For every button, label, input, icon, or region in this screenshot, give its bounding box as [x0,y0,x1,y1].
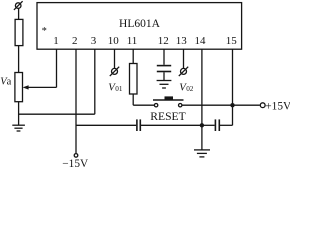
label Vo2 [179,81,194,93]
pushbutton RESET: left contact circle [154,104,157,107]
label Vo1 [108,81,123,93]
terminal -15V circle [74,154,78,158]
wire pin 14 vertical [201,49,203,125]
wire pin 2 vertical to -15V [75,49,77,153]
wire R2 bottom [132,94,134,105]
svg-text:+15V: +15V [265,100,290,112]
wire terminal T1 to resistor R1 [18,9,20,20]
svg-text:3: 3 [91,35,97,47]
terminal +15V circle [260,103,265,108]
terminal Vo1 (circle with slash) [110,67,119,76]
ground (bottom middle) [194,150,210,157]
svg-text:a: a [7,76,12,87]
wire pin 11 vertical [132,49,134,63]
wire pin 1 vertical [56,49,58,87]
ground (left, under Va) [12,125,25,131]
svg-text:2: 2 [72,35,78,47]
pushbutton RESET: actuator nub [165,96,174,99]
svg-text:HL601A: HL601A [119,18,161,30]
svg-text:01: 01 [115,85,123,93]
svg-text:1: 1 [53,35,59,47]
wire pin 3 to left ground node [19,113,95,115]
wire pin 1 to Va wiper [27,86,57,88]
svg-text:*: * [42,26,47,37]
capacitor C3 plates [215,119,219,131]
pushbutton RESET: right contact circle [179,104,182,107]
wire C1 to ground [163,72,165,80]
junction dot pin15 / +15V [230,103,234,107]
wire ground node to capacitor C3 [202,124,215,126]
svg-text:13: 13 [176,35,188,47]
IC U1 HL601A box [37,3,242,50]
svg-text:−15V: −15V [62,158,89,168]
wire switch right contact to +15V terminal [182,104,260,106]
wire R1 to potentiometer Va [18,46,20,73]
svg-text:11: 11 [127,35,138,47]
svg-text:12: 12 [158,35,169,47]
pushbutton RESET: bar [153,99,184,101]
svg-text:14: 14 [195,35,207,47]
svg-text:15: 15 [226,35,238,47]
label Va [0,76,11,87]
capacitor C2 plates [137,119,140,131]
wire pin 12 vertical [163,49,165,65]
Va wiper arrowhead [23,85,29,89]
resistor R1 [15,19,23,45]
junction dot ground node [200,123,204,127]
wire pin 15 vertical [232,49,234,125]
potentiometer Va body [15,73,23,102]
svg-text:02: 02 [186,85,194,93]
wire C2 to ground node [141,124,202,126]
terminal Vo2 (circle with slash) [179,67,188,76]
ground (under C1) [157,81,172,89]
svg-text:10: 10 [108,35,120,47]
wire pin 3 vertical [94,49,96,114]
wire pin 14 node to ground [201,125,203,149]
wire Va bottom to ground [18,102,20,126]
wire C3 to pin 15 wire [220,124,233,126]
wire pin 10 vertical [114,49,116,68]
wire R2 to switch left contact [133,104,154,106]
wire pin 13 vertical [183,49,185,68]
resistor R2 [130,64,138,95]
svg-text:RESET: RESET [150,110,185,123]
capacitor C1 plates [157,66,171,72]
wire -15V node to capacitor C2 [76,124,136,126]
terminal T1 (circle with slash, top-left) [14,1,23,10]
